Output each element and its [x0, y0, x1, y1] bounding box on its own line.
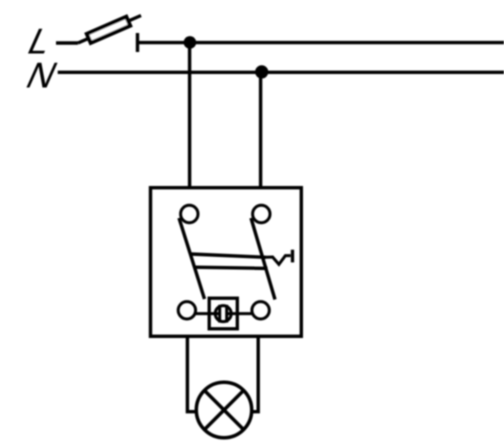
- fuse F1 body: [87, 17, 130, 43]
- switch blade right: [251, 218, 275, 300]
- wire L bus: [138, 41, 504, 44]
- junction dot L: [184, 36, 197, 49]
- lead to lamp left: [195, 312, 221, 315]
- wire lamp left: [187, 336, 196, 411]
- junction dot N: [255, 65, 268, 78]
- switch blade left: [179, 218, 205, 299]
- fuse blade: [78, 16, 141, 44]
- lamp cross stroke 2: [204, 390, 243, 429]
- wire lamp right: [252, 336, 258, 411]
- lamp cross stroke 1: [204, 390, 243, 429]
- label N: [20, 55, 64, 95]
- terminal bottom-right: [252, 302, 269, 319]
- glow lamp bulb: [215, 306, 231, 322]
- label L: [22, 21, 60, 61]
- coupler upper: [191, 254, 267, 257]
- actuator bar: [291, 250, 294, 263]
- lead to lamp right: [227, 312, 253, 315]
- wire N bus: [58, 71, 504, 74]
- coupler lower: [194, 267, 268, 268]
- glow lamp frame: [209, 298, 237, 329]
- switch box U1: [151, 188, 302, 337]
- electrode right: [225, 305, 228, 323]
- lamp E1: [196, 382, 251, 437]
- wire L lead: [56, 41, 78, 44]
- wire L drop: [188, 43, 191, 187]
- fixed contact bar: [136, 33, 139, 52]
- terminal top-right: [253, 205, 270, 222]
- spring zigzag: [266, 256, 291, 265]
- wire N drop: [259, 72, 262, 187]
- electrode left: [218, 305, 221, 323]
- terminal top-left: [181, 205, 198, 222]
- terminal bottom-left: [178, 302, 195, 319]
